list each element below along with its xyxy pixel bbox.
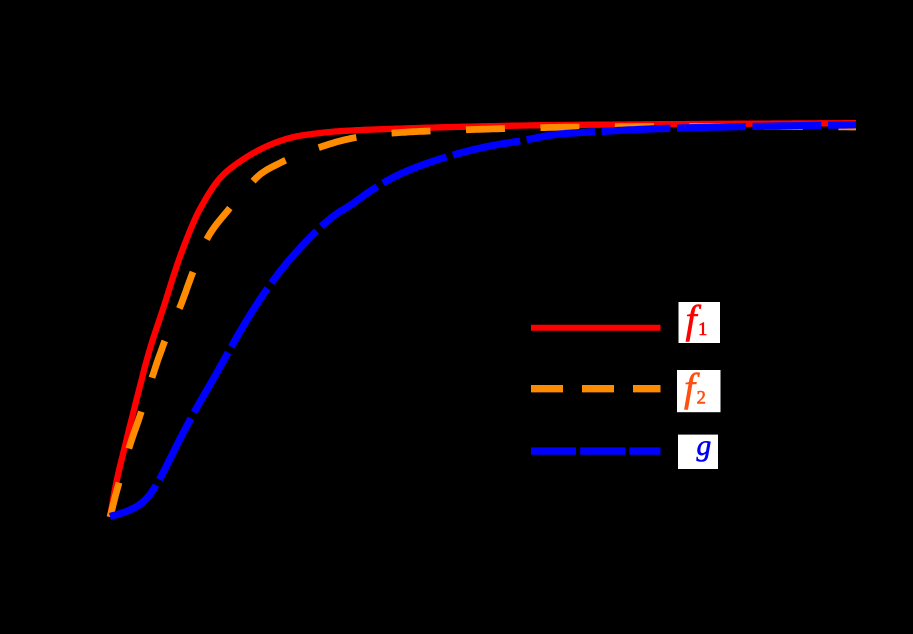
svg-text:g: g xyxy=(697,430,712,462)
legend line g xyxy=(531,447,661,454)
legend label box f1 xyxy=(679,302,721,343)
legend line f1 xyxy=(531,325,661,331)
legend line f2 xyxy=(531,385,661,392)
legend label box f2 xyxy=(677,370,721,412)
curve f2 (orange dashed) xyxy=(110,126,856,517)
legend label box g xyxy=(678,435,718,469)
curve f1 (red solid) xyxy=(110,123,856,517)
curve g (blue long-dashed) xyxy=(110,125,856,517)
